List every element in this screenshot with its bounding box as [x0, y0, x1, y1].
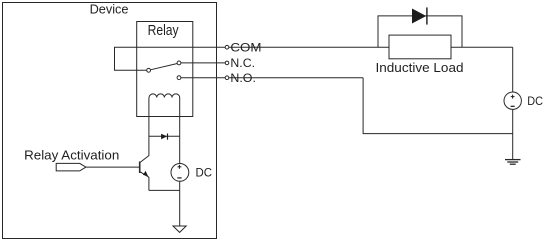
svg-text:Device: Device — [90, 3, 129, 17]
svg-text:N.O.: N.O. — [230, 71, 256, 85]
svg-text:DC: DC — [527, 94, 543, 108]
svg-text:DC: DC — [196, 165, 213, 179]
svg-text:Relay: Relay — [148, 23, 180, 39]
svg-text:Relay Activation: Relay Activation — [24, 147, 119, 162]
svg-text:N.C.: N.C. — [230, 56, 255, 70]
svg-text:Inductive Load: Inductive Load — [376, 60, 464, 75]
svg-text:COM: COM — [230, 40, 261, 54]
